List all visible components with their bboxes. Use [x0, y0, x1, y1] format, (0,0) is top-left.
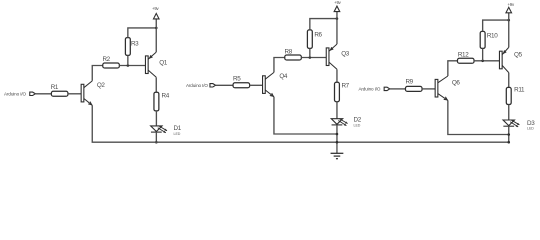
- transistor Q5: [499, 51, 502, 69]
- wire R3 bottom lead: [127, 55, 129, 65]
- svg-text:+9v: +9v: [507, 2, 514, 7]
- svg-text:Arduino I/O: Arduino I/O: [358, 87, 380, 92]
- wire Q3 collector to R7: [336, 69, 338, 82]
- wire D3 cathode to rail: [508, 126, 510, 142]
- svg-text:Q4: Q4: [279, 73, 288, 80]
- wire R9 to Q6 base: [422, 88, 435, 90]
- power +9v stage 1: [153, 13, 159, 19]
- svg-text:Arduino I/O: Arduino I/O: [4, 91, 26, 96]
- resistor R3: [125, 38, 130, 56]
- svg-text:LED: LED: [174, 132, 181, 136]
- input pin 2: [210, 84, 216, 87]
- wire Q1 emitter to +9v: [155, 28, 157, 52]
- svg-text:R12: R12: [458, 51, 469, 58]
- transistor Q4: [263, 76, 266, 94]
- node +9v junction 2: [336, 17, 339, 20]
- svg-text:Q5: Q5: [514, 51, 523, 58]
- wire R6 top to +9v rail 2: [310, 19, 337, 30]
- power +9v stage 2: [334, 6, 340, 11]
- node R6/Q3 base junction: [309, 56, 312, 59]
- wire R11 to D3: [508, 105, 510, 121]
- wire R8 to Q3 base: [301, 57, 326, 59]
- wire Q2 emitter to ground rail: [92, 105, 509, 142]
- wire R10 bottom lead: [482, 48, 484, 60]
- wire Q4 emitter to ground: [274, 97, 337, 134]
- wire to +9v arrow 3: [508, 13, 510, 20]
- resistor R2: [103, 63, 120, 68]
- svg-text:+9v: +9v: [152, 6, 159, 11]
- wire Q4 collector to R8: [274, 58, 285, 73]
- wire Q2 collector to R2: [92, 66, 103, 81]
- node ground rail junction: [336, 141, 339, 144]
- wire pin1 to R1: [35, 93, 51, 95]
- wire R5 to Q4 base: [250, 84, 263, 86]
- svg-text:R8: R8: [285, 49, 293, 56]
- wire to +9v arrow 2: [336, 12, 338, 19]
- resistor R9: [405, 86, 422, 91]
- svg-text:R2: R2: [102, 56, 110, 63]
- node Q4 emitter/D2 junction: [336, 133, 339, 136]
- transistor Q6: [435, 79, 438, 97]
- wire Q6 collector to R12: [448, 61, 458, 76]
- node +9v junction 3: [507, 19, 510, 22]
- wire Q5 emitter to +9v: [508, 20, 510, 47]
- svg-text:Q2: Q2: [97, 82, 106, 89]
- svg-text:R3: R3: [131, 41, 139, 48]
- svg-text:R7: R7: [341, 82, 349, 89]
- resistor R12: [457, 58, 474, 63]
- resistor R6: [307, 30, 312, 49]
- svg-text:R6: R6: [314, 32, 322, 39]
- wire D1 cathode to rail: [155, 132, 157, 142]
- svg-text:Q1: Q1: [159, 60, 168, 67]
- svg-text:LED: LED: [527, 127, 534, 131]
- wire Q6 emitter to ground: [448, 100, 509, 134]
- power +9v stage 3: [506, 7, 512, 13]
- LED D1: [151, 126, 162, 132]
- wire pin3 to R9: [390, 88, 406, 90]
- wire R3 top to +9v rail 1: [128, 28, 156, 38]
- node +9v junction 1: [155, 27, 158, 30]
- resistor R5: [233, 83, 250, 88]
- wire R12 to Q5 base: [474, 60, 499, 62]
- transistor Q3: [326, 48, 329, 66]
- resistor R8: [285, 55, 302, 60]
- node R10/Q5 base junction: [481, 60, 484, 63]
- node D1/rail junction: [155, 141, 158, 144]
- wire to +9v arrow 1: [155, 19, 157, 28]
- resistor R1: [51, 91, 68, 96]
- svg-text:R1: R1: [51, 84, 59, 91]
- node R3/Q1 base junction: [127, 64, 130, 67]
- input pin 1: [30, 92, 36, 95]
- svg-text:R10: R10: [487, 33, 498, 40]
- node rail end junction: [507, 141, 510, 144]
- transistor Q1: [145, 56, 148, 74]
- svg-text:Arduino I/O: Arduino I/O: [186, 83, 208, 88]
- svg-text:R11: R11: [514, 86, 525, 93]
- wire Q3 emitter to +9v: [336, 19, 338, 45]
- wire R4 to D1: [155, 111, 157, 126]
- svg-text:R5: R5: [233, 76, 241, 83]
- svg-text:Q3: Q3: [341, 51, 350, 58]
- resistor R11: [506, 87, 511, 104]
- wire R6 bottom lead: [309, 48, 311, 57]
- node Q6 emitter/D3 junction: [507, 133, 510, 136]
- wire R2 to Q1 base: [119, 65, 145, 67]
- wire R1 to Q2 base: [68, 93, 81, 95]
- input pin 3: [384, 87, 390, 90]
- svg-text:R4: R4: [162, 92, 170, 99]
- wire D2 cathode to rail: [336, 125, 338, 142]
- svg-text:Q6: Q6: [452, 80, 461, 87]
- transistor Q2: [81, 84, 84, 102]
- wire pin2 to R5: [216, 84, 234, 86]
- LED D3: [503, 120, 514, 126]
- wire Q5 collector to R11: [508, 73, 510, 88]
- svg-text:+9v: +9v: [334, 0, 341, 5]
- wire R10 top to +9v rail 3: [483, 20, 509, 31]
- resistor R10: [480, 31, 485, 48]
- resistor R7: [335, 82, 340, 101]
- wire Q1 collector to R4: [155, 77, 157, 92]
- ground: [336, 142, 338, 153]
- svg-text:R9: R9: [405, 79, 413, 86]
- wire R7 to D2: [336, 102, 338, 119]
- LED D2: [331, 119, 342, 125]
- svg-text:LED: LED: [354, 123, 361, 127]
- resistor R4: [154, 92, 159, 111]
